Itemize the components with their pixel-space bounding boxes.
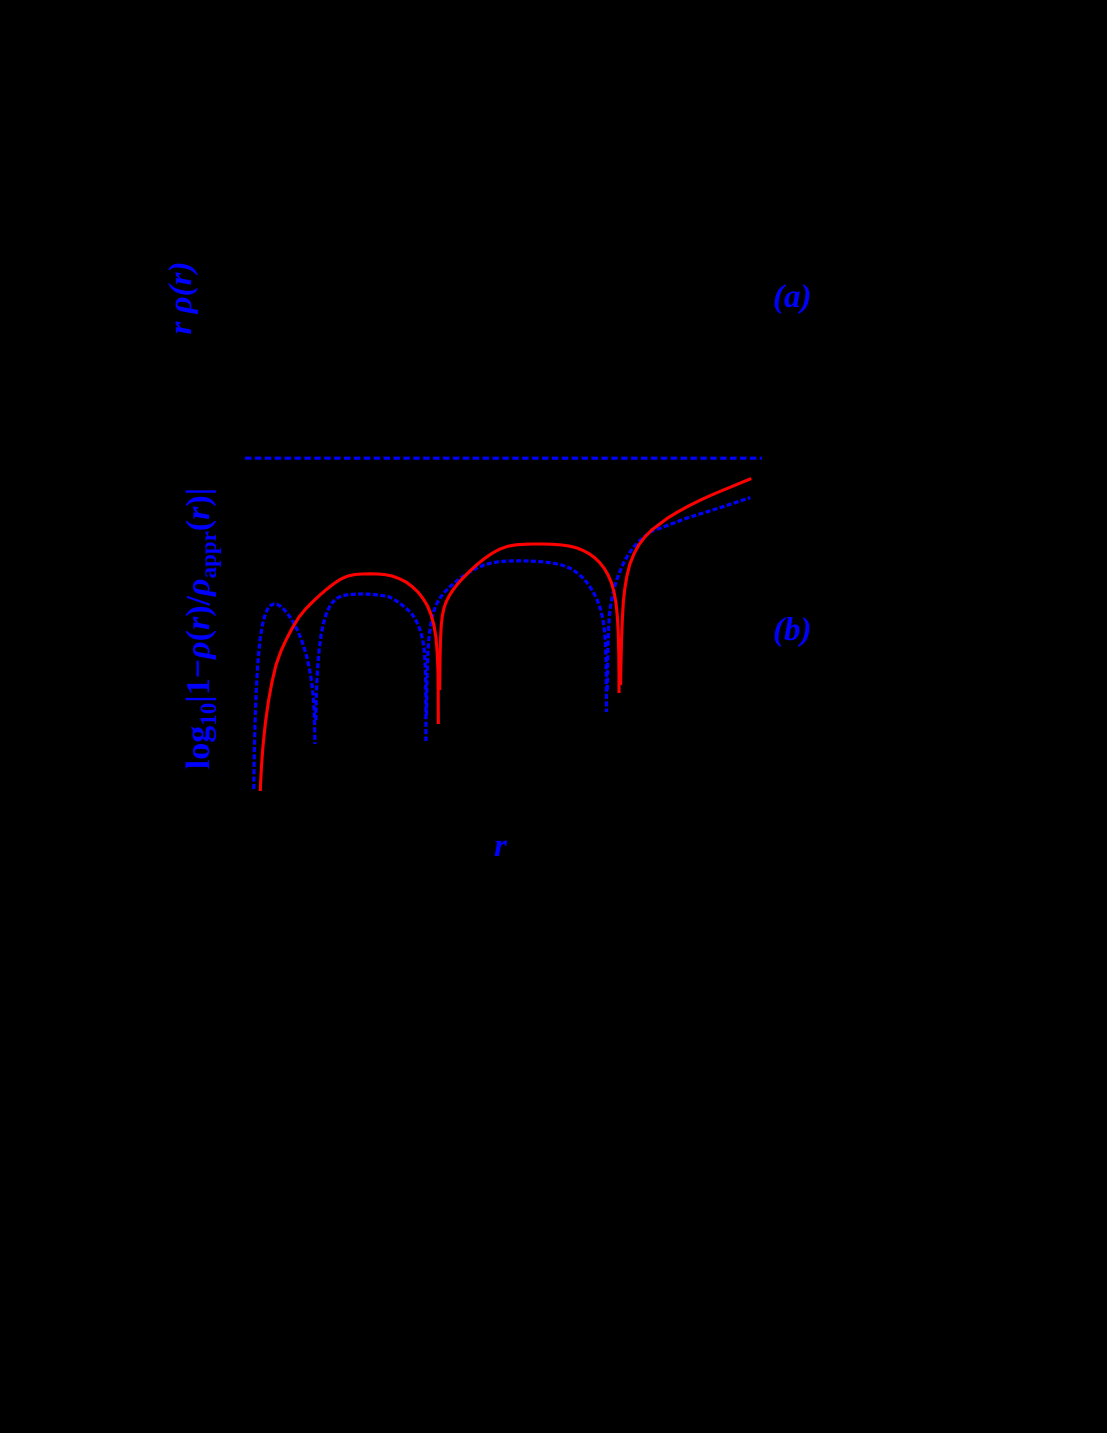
svg-text:(b): (b) [773,612,811,648]
svg-text:r ρ(r): r ρ(r) [163,262,199,335]
svg-text:(a): (a) [773,279,811,315]
svg-text:log10|1−ρ(r)/ρappr(r)|: log10|1−ρ(r)/ρappr(r)| [180,488,221,769]
svg-text:r: r [494,828,508,864]
